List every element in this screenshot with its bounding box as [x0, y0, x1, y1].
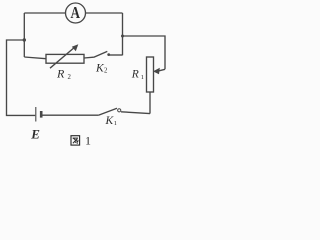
svg-text:A: A [70, 5, 80, 23]
svg-text:2: 2 [104, 67, 108, 74]
svg-text:E: E [30, 127, 40, 142]
svg-text:1: 1 [114, 120, 117, 127]
svg-text:1: 1 [141, 74, 144, 81]
svg-text:R: R [131, 69, 139, 81]
svg-text:R: R [56, 66, 65, 80]
svg-text:1: 1 [85, 133, 91, 147]
svg-text:2: 2 [68, 74, 72, 81]
